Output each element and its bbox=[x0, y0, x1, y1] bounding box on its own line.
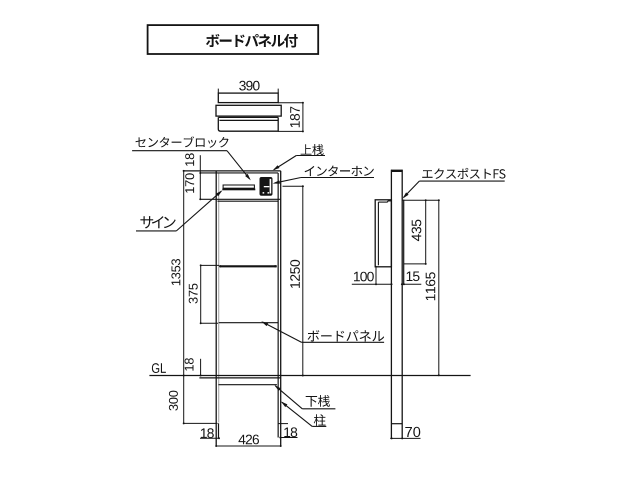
dim text 170 bbox=[185, 173, 194, 193]
dim 187 ext bottom bbox=[278, 130, 303, 132]
label board-panel underline+leader bbox=[301, 341, 384, 343]
board panel bottom ext bbox=[201, 322, 218, 324]
post right inner edge bbox=[277, 173, 279, 438]
GL text bbox=[152, 363, 166, 373]
dim 1353-300 column bbox=[183, 171, 185, 424]
intercom speaker bar bbox=[264, 186, 270, 187]
label shitazan underline+leader bbox=[302, 408, 335, 410]
post left edge bbox=[215, 171, 217, 446]
dim 435 text bbox=[412, 220, 422, 242]
label sign underline+leader bbox=[136, 230, 176, 232]
label uwazan (top rail) bbox=[301, 144, 324, 155]
side post right edge bbox=[401, 170, 403, 439]
label shitazan (bottom rail) bbox=[306, 395, 330, 407]
label center-block underline+leader bbox=[132, 150, 227, 152]
center block bottom line 2 bbox=[218, 200, 279, 202]
dim 1165 line bbox=[438, 200, 440, 375]
dim 435 line bbox=[425, 200, 427, 264]
dim 187 line bbox=[302, 103, 304, 132]
GL line bbox=[149, 375, 470, 377]
left leg inner edge bbox=[218, 423, 220, 438]
intercom buttons bbox=[263, 192, 265, 194]
sign plate bbox=[223, 185, 254, 188]
dim 15 line bbox=[402, 283, 422, 285]
label hashira (post) bbox=[314, 414, 326, 426]
title text boardpanel-tsuki bbox=[206, 34, 298, 48]
bottom rail top line bbox=[199, 377, 280, 379]
top rail outer line bbox=[183, 170, 281, 172]
label center-block bbox=[136, 136, 229, 147]
leg bottom ext left bbox=[183, 422, 218, 424]
sign base bar bbox=[222, 189, 255, 191]
plan cap top rect bbox=[218, 93, 278, 103]
side post top cap bbox=[391, 170, 403, 172]
dim 435 ext bottom bbox=[404, 263, 426, 265]
dim 1250 ext top bbox=[283, 185, 304, 187]
label expost-fs underline+leader bbox=[419, 180, 504, 182]
dim 1250 line bbox=[302, 186, 304, 375]
dim 187 ext top bbox=[278, 102, 303, 104]
dim text 18 top bbox=[185, 153, 194, 166]
title box bbox=[148, 25, 319, 54]
label interphone bbox=[305, 166, 374, 177]
plan cap mid rect bbox=[216, 105, 281, 116]
label interphone underline+leader bbox=[301, 177, 374, 179]
dim 435-1165 ext top bbox=[402, 199, 439, 201]
dim text 18 bottom-right bbox=[284, 427, 297, 437]
dim text 18 GL bbox=[185, 358, 194, 371]
dim 426 line bbox=[216, 445, 281, 447]
board panel bottom edge bbox=[219, 322, 278, 324]
label expost-fs bbox=[422, 168, 505, 179]
label uwazan underline+leader bbox=[296, 155, 325, 157]
intercom handset slot bbox=[270, 179, 272, 194]
label board-panel bbox=[308, 330, 385, 341]
dim text 426 bbox=[238, 435, 258, 445]
center block bottom line bbox=[200, 198, 280, 200]
top rail inner line bbox=[200, 172, 278, 174]
dim text 18 bottom-left bbox=[201, 428, 214, 438]
dim 390 text bbox=[239, 81, 259, 91]
board panel top ext bbox=[201, 264, 219, 266]
dim 18 left leg line bbox=[200, 437, 219, 439]
dim 18-170 column bbox=[199, 155, 201, 199]
side mailbox inner left bbox=[377, 202, 379, 265]
intercom body bbox=[260, 178, 272, 196]
label sign bbox=[140, 216, 175, 228]
side post left edge bbox=[390, 170, 392, 439]
post left shadow line bbox=[218, 173, 220, 423]
side board panel rear line bbox=[403, 200, 405, 285]
dim 100 line bbox=[352, 283, 393, 285]
board panel top edge bbox=[220, 265, 277, 267]
dim 1165 text bbox=[426, 272, 436, 300]
dim 100 ext bbox=[375, 266, 377, 284]
leg bottom ext right bbox=[278, 423, 288, 425]
plan body left edge bbox=[218, 117, 278, 131]
dim text 1250 bbox=[290, 260, 300, 288]
side post bottom line bbox=[391, 423, 402, 425]
dim 70 line bbox=[390, 437, 420, 439]
dim text 375 bbox=[189, 284, 198, 304]
dim text 1353 bbox=[171, 259, 180, 285]
plan body inner line bbox=[219, 119, 278, 121]
side mailbox outer bbox=[375, 200, 391, 267]
label hashira underline+leader bbox=[312, 425, 326, 427]
dim 375 column bbox=[200, 265, 202, 323]
dim 18 right leg line bbox=[280, 437, 297, 439]
plan body top line bbox=[218, 116, 278, 118]
post right outer edge bbox=[280, 171, 282, 446]
dim 390 ext ticks bbox=[217, 89, 219, 94]
dim 187 text bbox=[290, 107, 300, 128]
dim text 300 bbox=[169, 391, 178, 411]
dim 15 text bbox=[407, 272, 420, 282]
side mailbox lid bbox=[378, 201, 387, 203]
bottom rail bottom line bbox=[218, 384, 277, 386]
dim 18 GL column bbox=[200, 359, 202, 376]
dim 100 text bbox=[354, 272, 374, 282]
dim 70 text bbox=[405, 427, 420, 437]
